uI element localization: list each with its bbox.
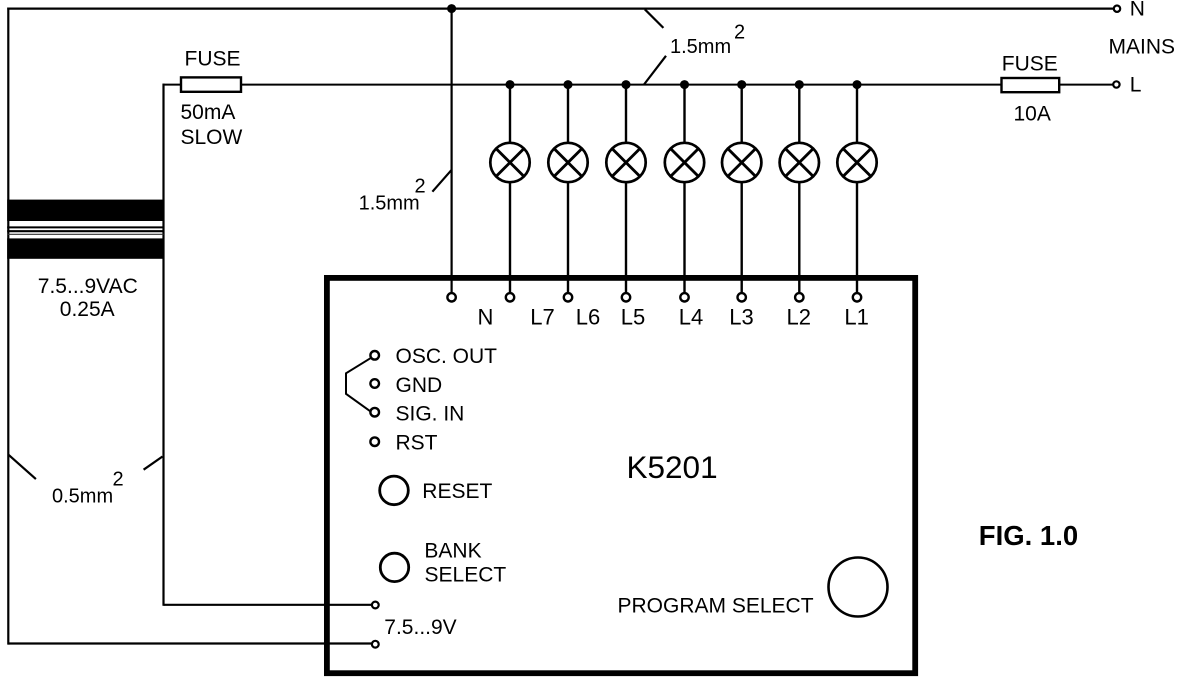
svg-text:L6: L6 <box>576 304 600 329</box>
svg-text:1.5mm: 1.5mm <box>359 193 420 215</box>
svg-text:2: 2 <box>415 176 426 198</box>
svg-text:L: L <box>1130 74 1142 97</box>
svg-text:2: 2 <box>113 469 124 491</box>
svg-text:L2: L2 <box>786 304 810 329</box>
svg-text:N: N <box>478 304 494 329</box>
svg-text:0.5mm: 0.5mm <box>52 485 113 507</box>
svg-text:L3: L3 <box>729 304 753 329</box>
svg-text:RESET: RESET <box>422 480 492 503</box>
svg-text:L7: L7 <box>530 304 554 329</box>
svg-text:SLOW: SLOW <box>181 126 243 149</box>
svg-text:50mA: 50mA <box>181 101 236 124</box>
svg-text:L1: L1 <box>844 304 868 329</box>
svg-text:PROGRAM SELECT: PROGRAM SELECT <box>618 594 814 617</box>
svg-text:RST: RST <box>396 432 438 455</box>
svg-text:FUSE: FUSE <box>1002 53 1058 76</box>
svg-text:K5201: K5201 <box>627 449 718 485</box>
svg-text:2: 2 <box>734 22 745 44</box>
svg-text:L4: L4 <box>679 304 703 329</box>
svg-text:10A: 10A <box>1014 102 1051 125</box>
svg-text:FUSE: FUSE <box>185 48 241 71</box>
svg-text:SELECT: SELECT <box>425 563 507 586</box>
svg-text:L5: L5 <box>621 304 645 329</box>
svg-text:MAINS: MAINS <box>1109 35 1176 58</box>
svg-text:7.5...9VAC: 7.5...9VAC <box>38 275 138 298</box>
svg-text:0.25A: 0.25A <box>60 298 115 321</box>
svg-text:GND: GND <box>396 374 443 397</box>
svg-text:SIG. IN: SIG. IN <box>396 403 465 426</box>
svg-text:N: N <box>1130 0 1145 20</box>
svg-text:7.5...9V: 7.5...9V <box>384 616 456 639</box>
svg-text:FIG. 1.0: FIG. 1.0 <box>979 520 1078 551</box>
svg-text:1.5mm: 1.5mm <box>670 36 731 58</box>
svg-text:OSC. OUT: OSC. OUT <box>396 345 498 368</box>
svg-text:BANK: BANK <box>424 540 481 563</box>
